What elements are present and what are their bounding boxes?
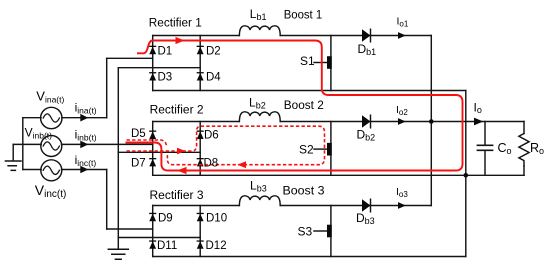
wire rectifier3 bottom rail	[153, 256, 466, 258]
svg-text:D5: D5	[131, 128, 146, 140]
wire neutral to node between D10 D12	[118, 237, 200, 239]
wire phase a vertical riser	[106, 58, 108, 117]
arrow red dashed left direction	[237, 161, 246, 168]
wire red solid commutation path row1 to output	[126, 41, 463, 171]
wire gate lead S1	[314, 62, 327, 64]
svg-text:D8: D8	[204, 158, 219, 170]
diode D5	[149, 131, 156, 139]
svg-text:D4: D4	[206, 72, 221, 84]
wire rectifier1 top rail left segment	[153, 35, 239, 37]
wire rectifier2 right leg	[199, 122, 201, 176]
diode D12	[197, 241, 204, 249]
wire red dashed loop through D6 S2	[127, 126, 325, 165]
svg-text:S3: S3	[298, 225, 313, 239]
svg-text:Boost 3: Boost 3	[283, 184, 325, 198]
svg-text:S1: S1	[300, 54, 315, 68]
arrow current Io2	[398, 118, 406, 125]
diode D4	[197, 73, 204, 81]
diode Db3 triangle	[362, 199, 371, 212]
arrow current iinb	[80, 141, 88, 149]
wire rectifier2 bottom rail to load	[153, 174, 524, 176]
diode Db1 cathode bar	[370, 29, 372, 42]
wire switch S2 branch	[330, 122, 332, 176]
svg-text:D3: D3	[158, 72, 173, 84]
wire switch S3 branch	[330, 206, 332, 257]
arrow current iina	[80, 114, 88, 122]
arrow current Io1	[398, 32, 406, 39]
svg-text:D2: D2	[206, 46, 221, 58]
wire rectifier3 right leg	[199, 206, 201, 257]
wire rectifier1 right leg	[199, 36, 201, 91]
wire rectifier1 left leg	[152, 36, 154, 91]
wire rectifier3 left leg	[152, 206, 154, 257]
diode Db2 triangle	[362, 115, 371, 128]
svg-text:D11: D11	[157, 240, 177, 252]
wire neutral to node between D6 D8	[118, 151, 200, 153]
diode D10	[197, 214, 204, 222]
wire rectifier2 top rail right segment to output bus	[280, 121, 431, 123]
capacitor Co top lead	[484, 122, 486, 146]
svg-text:Rectifier 1: Rectifier 1	[149, 18, 202, 30]
wire output bus collecting Io1 Io2 Io3	[430, 36, 432, 206]
wire gate lead S2	[314, 148, 327, 150]
wire switch S1 branch	[330, 36, 332, 91]
diode D3	[149, 73, 156, 81]
source Va sine	[43, 114, 59, 122]
wire neutral bus vertical	[117, 68, 119, 238]
arrow current iinc	[80, 166, 88, 174]
transistor S2 body	[327, 143, 332, 156]
wire rectifier3 top rail left segment	[153, 205, 239, 207]
svg-text:D9: D9	[158, 213, 173, 225]
inductor Lb3	[239, 196, 280, 206]
arrow current Io output	[474, 118, 483, 126]
transistor S3 body	[327, 225, 332, 238]
source Vc sine	[43, 166, 59, 174]
resistor Ro bottom lead	[523, 166, 525, 175]
source Va circle	[41, 107, 62, 128]
wire source b left stub	[13, 143, 41, 145]
wire output to load	[431, 121, 524, 123]
resistor Ro top lead	[523, 122, 525, 134]
arrow red solid path left direction	[177, 167, 187, 174]
svg-text:D10: D10	[206, 213, 227, 225]
wire source a left stub	[23, 117, 41, 119]
svg-text:D1: D1	[158, 46, 173, 58]
wire return bus right side	[465, 91, 467, 257]
diode D6	[197, 131, 204, 139]
wire neutral to node between D2 D4	[118, 67, 200, 69]
wire source left bus	[22, 118, 24, 170]
wire phase c input to node between D9 D11	[107, 228, 153, 230]
wire rectifier3 top rail right segment to output bus	[280, 205, 431, 207]
wire ground1 stem	[12, 144, 14, 160]
resistor Ro zigzag body	[519, 134, 529, 167]
wire phase a input to node between D1 D3	[107, 57, 153, 59]
arrow red solid path right direction	[176, 37, 185, 44]
arrow current Io3	[398, 202, 406, 209]
inductor Lb2	[239, 112, 280, 122]
svg-text:D12: D12	[206, 240, 227, 252]
svg-text:D7: D7	[131, 158, 146, 170]
diode Db2 cathode bar	[370, 115, 372, 128]
wire rectifier1 top rail right segment to output bus	[280, 35, 431, 37]
wire gate lead S3	[314, 230, 327, 232]
svg-text:Rectifier 2: Rectifier 2	[150, 105, 204, 117]
capacitor Co bottom plate	[477, 149, 492, 151]
diode D7	[149, 159, 156, 167]
wire red dashed path branch near D5	[127, 126, 325, 165]
svg-text:Boost 2: Boost 2	[284, 98, 324, 112]
source Vb sine	[43, 142, 59, 150]
diode D2	[197, 47, 204, 55]
wire source c left stub	[23, 169, 41, 171]
wire rectifier1 bottom rail	[153, 90, 466, 92]
arrow red dashed right direction	[177, 148, 185, 155]
ground ground2 bars	[108, 249, 128, 259]
wire ground2 stem	[117, 238, 119, 250]
source Vc circle	[41, 160, 62, 181]
node junction output bus to load	[429, 119, 434, 124]
wire phase c vertical riser	[106, 170, 108, 230]
diode D11	[149, 241, 156, 249]
wire rectifier2 left leg	[152, 122, 154, 176]
inductor Lb1	[239, 26, 280, 36]
svg-text:S2: S2	[299, 143, 314, 157]
ground ground1 bars	[5, 161, 21, 170]
source Vb circle	[41, 136, 62, 157]
diode Db3 cathode bar	[370, 199, 372, 212]
transistor S1 body	[327, 56, 332, 69]
svg-text:D6: D6	[204, 130, 219, 142]
wire rectifier2 top rail left segment	[153, 121, 239, 123]
capacitor Co top plate	[477, 144, 492, 146]
svg-text:Boost 1: Boost 1	[284, 8, 323, 22]
diode Db1 triangle	[362, 29, 371, 42]
wire phase c from source	[62, 169, 107, 171]
svg-text:Rectifier 3: Rectifier 3	[150, 190, 204, 202]
wire phase b input to node between D5 D7	[62, 143, 153, 145]
diode D9	[149, 214, 156, 222]
diode D8	[197, 159, 204, 167]
node junction return bus to load bottom	[464, 173, 469, 178]
diode D1	[149, 47, 156, 55]
capacitor Co bottom lead	[484, 150, 486, 175]
wire phase a from source	[62, 117, 107, 119]
